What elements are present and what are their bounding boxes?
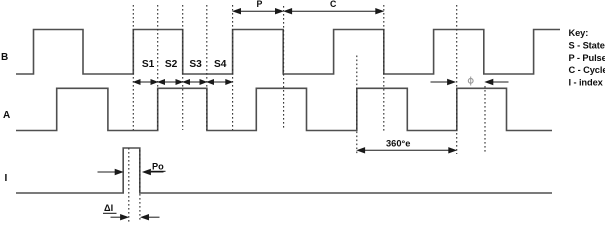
dashed line S1/S2 (A rising) [157, 5, 159, 130]
svg-text:360°e: 360°e [386, 139, 410, 149]
dashed line index pulse right reference [139, 150, 141, 222]
delta-I right arrow [142, 215, 160, 220]
C span arrow [285, 9, 383, 14]
phi right arrow [486, 80, 509, 85]
dashed line S4 end / P start (B rising) [232, 5, 234, 130]
S3 span arrow [184, 80, 207, 85]
dashed line 360 start (A rising) [356, 56, 358, 155]
svg-text:S - State: S - State [569, 41, 605, 51]
svg-text:ΔI: ΔI [104, 203, 113, 213]
P span arrow [234, 9, 283, 14]
svg-text:P: P [257, 0, 263, 9]
channel I waveform with index pulse [16, 148, 552, 193]
svg-text:S4: S4 [214, 59, 227, 70]
dashed line phi end (B falling extension) [484, 86, 486, 153]
dashed line state S1 start (B rising) [132, 5, 134, 130]
S2 span arrow [159, 80, 183, 85]
Po right arrow [143, 170, 163, 175]
Po left arrow [98, 170, 123, 175]
S1 span arrow [134, 80, 157, 85]
S4 span arrow [208, 80, 232, 85]
channel A waveform [16, 88, 552, 130]
svg-text:S2: S2 [165, 59, 178, 70]
key legend [569, 28, 605, 87]
svg-text:S1: S1 [142, 59, 155, 70]
phi left arrow [431, 80, 455, 85]
svg-text:Po: Po [152, 161, 164, 171]
delta-I left arrow [111, 215, 128, 220]
svg-text:S3: S3 [189, 59, 202, 70]
svg-text:I - index: I - index [569, 78, 604, 88]
dashed line index pulse left reference [128, 148, 130, 222]
dashed line S2/S3 (B falling) [182, 5, 184, 130]
svg-text:B: B [1, 52, 8, 63]
dashed line P end / C start (B falling) [283, 6, 285, 129]
svg-text:C - Cycle: C - Cycle [569, 65, 605, 75]
svg-text:C: C [330, 0, 337, 9]
svg-text:Key:: Key: [569, 28, 589, 38]
dashed line C end (B falling) [383, 5, 385, 131]
svg-text:P - Pulse: P - Pulse [569, 53, 605, 63]
360 degree span arrow [358, 148, 456, 153]
dashed line 360 end / phi reference (A rising) [456, 5, 458, 154]
channel B waveform [16, 30, 560, 75]
svg-text:I: I [5, 173, 8, 184]
dashed line S3/S4 (A falling) [206, 5, 208, 130]
phi symbol [468, 77, 473, 86]
svg-text:A: A [3, 110, 10, 121]
